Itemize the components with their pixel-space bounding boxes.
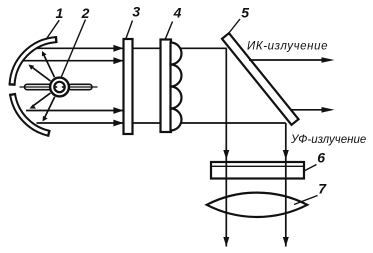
- lens 7: [207, 193, 308, 217]
- leader line for label 5: [229, 19, 241, 34]
- svg-text:5: 5: [241, 5, 249, 21]
- leader line for label 1: [46, 20, 59, 39]
- lamp axis line: [20, 86, 98, 88]
- vertical ray 1 (beamsplitter down through filter and lens): [223, 48, 229, 246]
- IR output arrow: [249, 57, 335, 63]
- ray 4 (horizontal, mirror to plate 3, continues to beamsplitter): [37, 120, 286, 127]
- lamp electrode left: [25, 84, 52, 89]
- lamp ring 2 (outer circle): [50, 78, 69, 97]
- lens array 4 body: [161, 40, 172, 133]
- svg-text:3: 3: [132, 4, 140, 20]
- lens array 4 bump 3: [171, 87, 182, 109]
- leader line for label 7: [294, 196, 318, 205]
- filter 6: [211, 162, 304, 179]
- svg-text:1: 1: [56, 5, 64, 21]
- leader line for label 6: [303, 165, 317, 172]
- plate 3: [124, 39, 133, 134]
- beamsplitter 5: [222, 33, 299, 125]
- leader line for label 4: [165, 22, 173, 40]
- lamp electrode right: [69, 84, 93, 89]
- svg-text:4: 4: [173, 5, 182, 21]
- ray 2 (horizontal, mirror to plate 3): [24, 57, 124, 64]
- leader line for label 2: [61, 20, 86, 78]
- ray 3 (horizontal, mirror to plate 3): [26, 107, 123, 114]
- ray 1 (horizontal, mirror to plate 3, continues to beamsplitter): [37, 45, 227, 52]
- svg-text:2: 2: [81, 5, 90, 21]
- svg-text:7: 7: [318, 180, 327, 196]
- UV output arrow: [291, 107, 335, 113]
- leader line for label 3: [126, 21, 133, 40]
- svg-text:ИК-излучение: ИК-излучение: [247, 41, 328, 53]
- radial arrow b (lamp to mirror, left): [29, 65, 51, 81]
- svg-text:6: 6: [317, 149, 325, 165]
- reflector arc end caps: [9, 36, 57, 137]
- svg-text:УФ-излучение: УФ-излучение: [290, 134, 366, 146]
- electrode tip nubs inside ring: [55, 86, 57, 88]
- reflector mirror 1 (lower arc segment): [13, 94, 49, 133]
- reflector mirror 1 (upper arc segment): [12, 40, 56, 85]
- lamp center mask: [56, 84, 63, 91]
- lens array 4 bump 1: [171, 43, 182, 65]
- radial arrow d (lamp to mirror, down): [43, 97, 55, 122]
- vertical ray 2 (beamsplitter down through filter and lens): [283, 123, 289, 247]
- lens array 4 bump 2: [171, 65, 182, 87]
- radial arrow c (lamp to mirror, down-left): [30, 93, 51, 109]
- radial arrow a (lamp to mirror, up-left): [42, 51, 55, 77]
- lens array 4 bump 4: [171, 109, 182, 131]
- lamp ring 2 (inner circle): [54, 82, 64, 92]
